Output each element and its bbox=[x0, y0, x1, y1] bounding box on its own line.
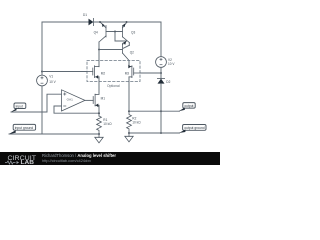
wire Q2 base left to Q4 collector node bbox=[99, 49, 123, 51]
resistor R1 bbox=[97, 116, 102, 134]
svg-text:M1: M1 bbox=[101, 97, 106, 101]
svg-text:M3: M3 bbox=[125, 71, 130, 75]
svg-text:input: input bbox=[16, 104, 23, 108]
voltage source V1 bbox=[37, 75, 48, 86]
node V1 plus junction with M2 gate wire bbox=[41, 71, 43, 73]
svg-text:10 kΩ: 10 kΩ bbox=[103, 122, 112, 126]
wire M2 source down to M1 drain bbox=[98, 77, 100, 94]
wire op-amp output to M1 gate bbox=[85, 99, 93, 101]
wire base junction down and right to Q2 emitter bbox=[115, 32, 127, 42]
svg-text:Q4: Q4 bbox=[94, 31, 98, 35]
input tag bbox=[11, 103, 26, 112]
input ground tag bbox=[9, 124, 36, 134]
node Q3 emitter junction bbox=[126, 21, 128, 23]
transistor Q3 (PNP) bbox=[123, 22, 130, 43]
node feedback junction at R1 top bbox=[98, 112, 100, 114]
node mirror base junction bbox=[114, 31, 116, 33]
ground symbol under R1 bbox=[95, 134, 103, 143]
wire Q4 base to Q3 base bbox=[106, 31, 123, 33]
svg-text:OA1: OA1 bbox=[67, 97, 73, 101]
diode D1 bbox=[89, 18, 94, 25]
mosfet M2 (in box, gate left) bbox=[87, 66, 99, 79]
wire op-amp plus input to input tag bbox=[11, 94, 62, 112]
svg-text:input ground: input ground bbox=[15, 126, 33, 130]
svg-text:output: output bbox=[184, 104, 193, 108]
node M3 gate tap on V2-D2 wire bbox=[160, 72, 162, 74]
transistor Q2 (PNP beta helper) bbox=[123, 41, 130, 61]
wire right rail down to V2 bbox=[160, 22, 162, 57]
ground symbol under R2 bbox=[125, 133, 133, 142]
diode D2 bbox=[157, 79, 164, 84]
svg-text:10 V: 10 V bbox=[49, 80, 56, 84]
mosfet M3 (in box, gate right) bbox=[128, 65, 140, 78]
svg-text:D1: D1 bbox=[83, 13, 87, 17]
wire V1 plus up to top rail corner bbox=[41, 22, 43, 75]
wire M3 gate right to V2/D2 node bbox=[140, 72, 161, 74]
node output ground at D2 branch bbox=[160, 132, 162, 134]
resistor R2 bbox=[127, 111, 132, 133]
optional dashed box bbox=[87, 61, 140, 82]
node Q4 emitter junction bbox=[99, 21, 101, 23]
wire input ground rail bbox=[9, 133, 99, 135]
wire V1 minus down to input ground rail bbox=[41, 86, 43, 134]
output tag bbox=[179, 103, 196, 112]
wire Q3 collector stub down to Q2 emitter loop bbox=[128, 43, 130, 46]
wire output rail bbox=[129, 110, 180, 112]
wire Q4 collector down into optional box (M2 drain) bbox=[98, 42, 100, 67]
svg-text:LAB: LAB bbox=[21, 160, 35, 165]
wire D2 anode down to output ground rail bbox=[160, 84, 162, 133]
wire top rail left segment to D1 anode bbox=[42, 21, 89, 23]
svg-text:10 V: 10 V bbox=[168, 62, 175, 66]
transistor Q4 (PNP, mirrored) bbox=[99, 22, 106, 42]
CircuitLab logo bbox=[0, 151, 42, 165]
node Q4 collector / Q2 base junction bbox=[98, 49, 100, 51]
node R1 bottom ground junction bbox=[98, 133, 100, 135]
svg-text:10 kΩ: 10 kΩ bbox=[132, 120, 141, 124]
footer bar bbox=[0, 152, 220, 165]
mosfet M1 (source follower) bbox=[93, 94, 99, 107]
svg-text:output ground: output ground bbox=[184, 126, 205, 130]
voltage source V2 bbox=[156, 57, 167, 68]
wire V2 minus down to D2 bbox=[160, 67, 162, 78]
node R2 bottom bbox=[128, 132, 130, 134]
svg-text:Optional: Optional bbox=[107, 84, 120, 88]
svg-text:Q2: Q2 bbox=[130, 51, 134, 55]
svg-text:Q3: Q3 bbox=[131, 31, 135, 35]
output ground tag bbox=[179, 125, 206, 134]
svg-text:M2: M2 bbox=[101, 71, 106, 75]
wire top rail right segment bbox=[94, 21, 162, 23]
node output rail at D2 branch bbox=[160, 110, 162, 112]
wire output ground rail bbox=[129, 132, 180, 134]
wire M1 source down to R1 bbox=[98, 105, 100, 116]
wire Q2 collector down into optional box (M3 drain) bbox=[128, 61, 130, 67]
svg-text:D2: D2 bbox=[166, 80, 170, 84]
svg-text:V1: V1 bbox=[49, 75, 53, 79]
wire op-amp minus input to feedback node bbox=[54, 106, 99, 113]
wire M3 source down out of box to output rail bbox=[128, 77, 130, 111]
url text bbox=[42, 158, 91, 163]
node output rail at M3 source bbox=[128, 110, 130, 112]
wire Q3 collector loop into Q2 emitter bbox=[123, 45, 129, 48]
title text bbox=[42, 153, 116, 158]
wire V1 plus to M2 gate bbox=[42, 71, 87, 73]
op-amp OA1 bbox=[62, 90, 86, 111]
